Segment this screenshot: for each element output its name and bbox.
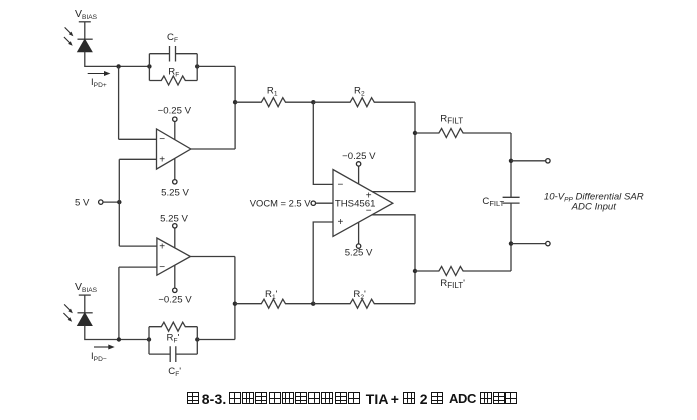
output terminal 2 [546, 241, 550, 245]
op-amp U2 non-inverting input wire [119, 245, 157, 247]
node D junction dot [311, 302, 315, 306]
U3 positive supply terminal [356, 162, 360, 166]
op-amp U2 output wire [190, 256, 235, 258]
node C junction dot [117, 337, 121, 341]
5V rail vertical wire [118, 159, 120, 246]
capacitor CF plates [170, 46, 176, 62]
wire feedback bottom to output rail [197, 339, 235, 341]
photodiode D2 cathode bar [78, 312, 93, 314]
THS4561 U3 triangle [333, 170, 393, 237]
resistor R1 [235, 98, 313, 107]
resistor RFILT [415, 129, 511, 138]
photodiode D1 light arrow 2 [64, 37, 73, 46]
feedback network top: left node dot [147, 64, 151, 68]
IPD+ current arrow [88, 71, 110, 75]
op-amp U1 triangle [157, 129, 191, 169]
feedback network bottom: left rail [148, 327, 150, 354]
op-amp U2 positive supply terminal [173, 224, 177, 228]
feedback network bottom: right rail [196, 327, 198, 354]
photodiode D1 body [78, 39, 92, 51]
node G junction dot [509, 159, 513, 163]
op-amp U1 non-inverting input wire [119, 158, 156, 160]
op-amp U1 negative supply terminal [173, 180, 177, 184]
VBIAS+ supply bar [79, 21, 91, 23]
node F junction dot [413, 269, 417, 273]
wire photodiode D1 to node A [85, 52, 150, 67]
5V source terminal [99, 200, 103, 204]
U3 negative supply pin [358, 222, 360, 244]
VBIAS- supply bar [79, 294, 91, 296]
feedback network top: right node dot [195, 64, 199, 68]
output terminal 1 [546, 159, 550, 163]
filter rail upper wire [510, 133, 512, 197]
feedback network top: left rail [148, 54, 150, 81]
filter rail lower wire [510, 203, 512, 271]
wire U2 inverting input to node C [118, 267, 120, 339]
op-amp U2 inverting input wire [119, 266, 157, 268]
op-amp U1 inverting input wire [119, 138, 157, 140]
feedback network bottom: right node dot [195, 337, 199, 341]
op-amp U1 negative supply pin [174, 159, 176, 180]
resistor R2' [313, 299, 415, 308]
op-amp U1 positive supply pin [174, 121, 176, 139]
wire node H to output terminal 2 [511, 243, 546, 245]
resistor R1' [235, 299, 313, 308]
VOCM terminal [311, 201, 315, 205]
resistor RF zigzag [149, 76, 197, 85]
wire node A to U1 inverting input [118, 66, 120, 139]
wire output rail vertical U2 [234, 257, 236, 340]
op-amp U2 negative supply terminal [173, 288, 177, 292]
op-amp U2 triangle [157, 238, 191, 275]
node H junction dot [509, 241, 513, 245]
wire node B to U3 inverting input [313, 102, 333, 184]
capacitor CF' branch wires [149, 353, 197, 355]
capacitor CFILT plates [503, 197, 520, 203]
photodiode D1 cathode bar [78, 38, 93, 40]
wire node D to U3 non-inverting input [313, 222, 333, 304]
op-amp U2 positive supply pin [174, 228, 176, 248]
resistor RFILT' [415, 267, 511, 276]
capacitor CF' plates [170, 346, 176, 362]
wire photodiode D2 to node C [85, 326, 149, 340]
wire R2 to U3 positive output [372, 102, 415, 191]
node B junction dot [311, 100, 315, 104]
node A junction dot [116, 64, 120, 68]
wire 5V to rail [103, 201, 119, 203]
feedback network bottom: left node dot [147, 337, 151, 341]
resistor RF' zigzag [149, 322, 197, 331]
U3 negative supply terminal [356, 244, 360, 248]
wire VOCM to U3 [316, 202, 334, 204]
feedback network top: right rail [196, 54, 198, 81]
resistor R2 [313, 98, 415, 107]
photodiode D2 light arrow 2 [63, 313, 72, 322]
U3 positive supply pin [358, 166, 360, 184]
wire VBIAS+ to photodiode D1 [84, 22, 86, 39]
wire feedback top to output rail [197, 65, 235, 67]
wire output rail vertical U1 [234, 66, 236, 149]
node 5V rail junction dot [117, 200, 121, 204]
node E junction dot [413, 131, 417, 135]
node R1 tap dot [233, 100, 237, 104]
wire VBIAS- to photodiode D2 [84, 295, 86, 313]
wire node G to output terminal 1 [511, 160, 546, 162]
op-amp U1 positive supply terminal [173, 117, 177, 121]
IPD- current arrow [94, 345, 114, 349]
photodiode D2 light arrow 1 [64, 304, 73, 313]
op-amp U2 negative supply pin [174, 266, 176, 289]
wire R2' to U3 negative output [372, 215, 415, 304]
photodiode D2 body [78, 313, 92, 326]
capacitor CF branch wires [149, 53, 197, 55]
op-amp U1 output wire [191, 148, 235, 150]
node R1' tap dot [233, 302, 237, 306]
photodiode D1 light arrow 1 [65, 27, 74, 36]
